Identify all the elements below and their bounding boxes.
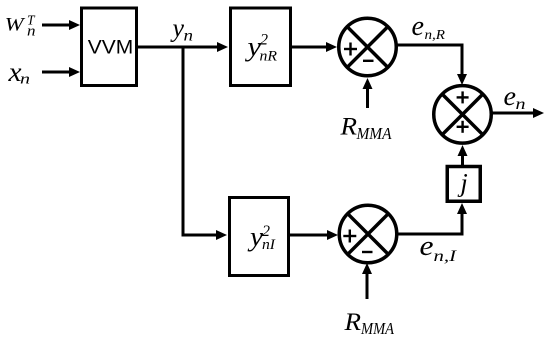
svg-text:n: n <box>20 72 30 88</box>
svg-text:e: e <box>504 80 517 111</box>
svg-text:n,I: n,I <box>434 248 457 265</box>
svg-text:e: e <box>412 11 425 42</box>
svg-text:nR: nR <box>260 48 278 64</box>
svg-text:R: R <box>343 309 361 336</box>
svg-text:MMA: MMA <box>360 319 394 338</box>
svg-text:y: y <box>244 31 261 61</box>
svg-text:n: n <box>27 24 36 40</box>
svg-text:R: R <box>339 112 357 141</box>
svg-text:y: y <box>247 221 263 251</box>
svg-text:W: W <box>5 13 26 35</box>
svg-text:n: n <box>184 28 194 45</box>
svg-text:n: n <box>516 96 526 113</box>
svg-text:y: y <box>170 14 185 43</box>
svg-text:e: e <box>420 231 434 262</box>
svg-text:n,R: n,R <box>425 28 446 43</box>
svg-text:j: j <box>457 167 467 197</box>
svg-text:nI: nI <box>262 237 276 253</box>
svg-text:MMA: MMA <box>356 124 392 143</box>
svg-text:2: 2 <box>260 32 268 49</box>
svg-text:VVM: VVM <box>88 36 134 58</box>
